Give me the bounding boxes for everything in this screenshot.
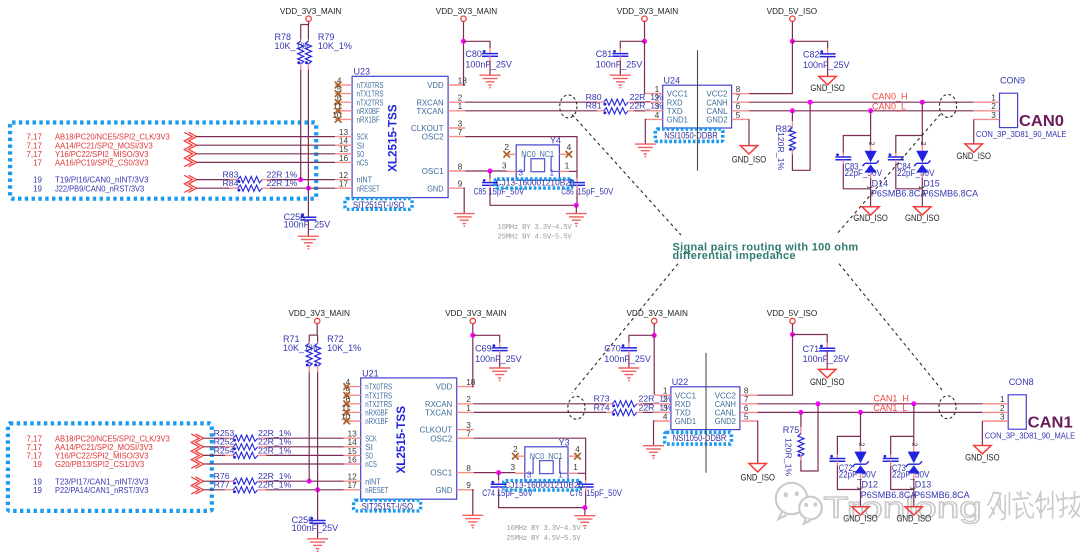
wire C83 down: [843, 164, 870, 189]
ground pin9 U23: [454, 213, 475, 215]
wire D14 to iso gnd: [870, 189, 872, 207]
wire branch to C81: [620, 41, 644, 48]
callout dash top-left: [572, 114, 681, 235]
pin 13 SCK U23: [335, 136, 352, 138]
svg-text:100nF_25V: 100nF_25V: [596, 60, 643, 70]
svg-text:22R_1%: 22R_1%: [258, 480, 292, 490]
pin 11 nRX0BF U21: [344, 411, 361, 413]
wire branch D14: [870, 111, 872, 136]
svg-text:nCS: nCS: [365, 459, 377, 469]
wire branch to C69: [473, 335, 500, 342]
wire R82 wrap to CAN0_H: [792, 102, 810, 170]
wire pullup1 to nINT: [300, 70, 302, 180]
svg-text:nRX1BF: nRX1BF: [365, 416, 388, 426]
pin 1 TXCAN U23: [448, 110, 465, 112]
pin 7 CANH U24: [732, 101, 750, 103]
svg-text:2: 2: [911, 442, 920, 446]
svg-text:R81: R81: [586, 101, 602, 111]
svg-text:nCS: nCS: [357, 158, 369, 168]
pin 15 SO U21: [344, 454, 361, 456]
CAN controller U23 XL2515-TSS: [352, 76, 448, 197]
ground GND1 U24: [635, 143, 656, 145]
pin 1 VCC1 U22: [654, 394, 671, 396]
pin 7 CANH U22: [740, 403, 758, 405]
svg-text:8: 8: [466, 463, 471, 473]
svg-text:VDD_3V3_MAIN: VDD_3V3_MAIN: [436, 7, 498, 16]
ground C80: [480, 74, 501, 76]
svg-text:2: 2: [857, 442, 866, 446]
no-connect pin 10 U21: [343, 418, 350, 425]
wire VCC1 feed U22: [653, 335, 656, 395]
off-page connectors control CAN1: [196, 477, 204, 494]
pin 18 VDD U23: [448, 84, 465, 86]
svg-text:4: 4: [567, 142, 572, 152]
svg-text:2: 2: [504, 142, 509, 152]
svg-text:16MHz BY 3.3V~4.5V: 16MHz BY 3.3V~4.5V: [507, 525, 582, 533]
svg-text:nRX1BF: nRX1BF: [357, 115, 380, 125]
no-connect pin 4 U21: [343, 383, 350, 390]
svg-text:VDD_3V3_MAIN: VDD_3V3_MAIN: [626, 309, 688, 318]
svg-text:1: 1: [565, 160, 570, 170]
routing ellipse right CAN1: [939, 396, 956, 419]
svg-text:D13: D13: [915, 479, 932, 489]
svg-text:Y3: Y3: [559, 438, 570, 448]
svg-text:GND_ISO: GND_ISO: [956, 151, 991, 161]
svg-text:25MHz BY 4.5V~5.5V: 25MHz BY 4.5V~5.5V: [498, 234, 573, 242]
capacitor C80 100nF_25V: [489, 48, 491, 54]
power VDD_3V3_MAIN C80: [461, 16, 466, 21]
svg-text:CJ13-160001210B20: CJ13-160001210B20: [504, 480, 583, 490]
junction VDD rail C80: [461, 39, 466, 44]
iso ground C82: [819, 76, 836, 84]
svg-text:U23: U23: [354, 67, 371, 77]
power VDD_3V3_MAIN C81: [642, 16, 647, 21]
pin 9 GND U21: [457, 489, 474, 491]
svg-text:NC0: NC0: [530, 451, 545, 461]
junction pullup/nRESET: [306, 186, 311, 191]
pin 5 GND2 U22: [740, 420, 758, 422]
svg-text:TXCAN: TXCAN: [416, 106, 443, 116]
svg-text:G20/PB13/SPI2_CS1/3V3: G20/PB13/SPI2_CS1/3V3: [55, 459, 145, 469]
svg-text:VDD: VDD: [436, 382, 452, 392]
svg-text:OSC1: OSC1: [422, 166, 444, 176]
junction pullup/nRESET: [315, 487, 320, 492]
pin 12 nINT U23: [335, 179, 352, 181]
resistor R75 120R_1%: [800, 412, 802, 427]
svg-text:J22/PB9/CAN0_nRST/3V3: J22/PB9/CAN0_nRST/3V3: [55, 183, 145, 193]
wire C80 to gnd: [489, 61, 491, 76]
pin 8 VCC2 U24: [732, 93, 750, 95]
pin 3 Y4: [507, 170, 517, 172]
svg-text:CAN0: CAN0: [1019, 113, 1064, 130]
wire branch D15: [921, 102, 923, 135]
wire branch to C82: [792, 41, 827, 48]
svg-text:16MHz BY 3.3V~4.5V: 16MHz BY 3.3V~4.5V: [498, 224, 573, 232]
svg-text:4: 4: [575, 444, 580, 454]
wire SPI2_CS wire: [204, 463, 344, 465]
wire pin3 CON9 to iso gnd: [973, 119, 975, 143]
svg-text:1: 1: [558, 470, 563, 480]
wire nINT wire: [197, 179, 230, 181]
pin 4 GND1 U24: [645, 118, 662, 120]
wire VCC1 feed U24: [644, 41, 647, 93]
svg-text:GND_ISO: GND_ISO: [732, 155, 767, 165]
resistor R79 10K_1%: [307, 25, 309, 40]
junction R82 top: [790, 108, 795, 113]
no-connect pin 4 U23: [335, 82, 342, 89]
svg-text:CAN1: CAN1: [1028, 415, 1073, 432]
svg-text:C74: C74: [482, 488, 495, 498]
resistor R84 22R 1%: [230, 187, 238, 189]
wire nINT wire: [204, 480, 226, 482]
svg-text:CJ13-160001210B20: CJ13-160001210B20: [496, 178, 575, 188]
junction pullup/nINT: [307, 479, 312, 484]
wire GND pin9 U23 to gnd: [463, 188, 466, 213]
capacitor C69 100nF_25V: [499, 342, 501, 348]
pin 2 RXCAN U23: [448, 101, 465, 103]
resistor R252 22R_1%: [225, 446, 233, 448]
svg-text:P6SMB6.8CA: P6SMB6.8CA: [914, 490, 970, 500]
junction R82 to CAN0_H: [808, 100, 813, 105]
svg-text:C71: C71: [803, 344, 820, 354]
wire branch D13: [913, 404, 915, 437]
off-page connectors SPI CAN0: [189, 132, 197, 166]
svg-text:U22: U22: [672, 377, 689, 387]
pin 2 RXD U24: [645, 101, 662, 103]
svg-text:1: 1: [549, 168, 554, 178]
no-connect pin 5 U21: [343, 392, 350, 399]
wire TXCAN wire: [474, 411, 607, 413]
svg-text:7: 7: [458, 127, 463, 137]
callout dash bottom-left: [572, 264, 678, 393]
wire CAN0_L line: [749, 110, 974, 112]
wire nRST wire b: [270, 187, 335, 189]
junction VCC1 rail C81: [642, 39, 647, 44]
wire branch D12: [860, 412, 862, 436]
svg-text:P22/PA14/CAN1_nRST/3V3: P22/PA14/CAN1_nRST/3V3: [55, 485, 149, 495]
wire CAN0_H line: [749, 101, 974, 103]
svg-text:8: 8: [458, 161, 463, 171]
wire nRESET to cap: [317, 490, 319, 521]
resistor R254 22R_1%: [225, 454, 233, 456]
off-page connectors control CAN0: [189, 175, 197, 192]
wire RXD wire: [634, 101, 645, 103]
part number box SIT2515T-I/SO U21: [354, 500, 421, 511]
svg-text:GND2: GND2: [706, 115, 727, 125]
svg-text:C80: C80: [465, 49, 482, 59]
svg-text:18: 18: [458, 75, 468, 85]
iso ground C71: [819, 369, 836, 377]
pin 1 TXCAN U21: [457, 411, 474, 413]
wire OSC2 wire: [474, 438, 586, 473]
capacitor C73 22pF_50V: [891, 436, 914, 454]
svg-text:VDD_5V_ISO: VDD_5V_ISO: [767, 309, 818, 318]
wire nINT wire b: [270, 179, 335, 181]
svg-text:3: 3: [527, 470, 532, 480]
wire pullup2 to nRESET: [317, 372, 319, 490]
pin 14 SI U21: [344, 446, 361, 448]
svg-text:2: 2: [919, 142, 928, 146]
junction VDD_5V_ISO rail: [790, 332, 795, 337]
svg-text:5: 5: [736, 110, 741, 120]
routing ellipse left CAN1: [568, 396, 585, 419]
svg-text:OSC2: OSC2: [430, 433, 452, 443]
svg-text:D15: D15: [923, 179, 940, 189]
svg-text:100nF_25V: 100nF_25V: [803, 354, 850, 364]
junction D13 branch: [911, 401, 916, 406]
routing ellipse right CAN0: [939, 94, 956, 117]
svg-text:10K_1%: 10K_1%: [327, 343, 361, 353]
pin 3 TXD U24: [645, 110, 662, 112]
svg-text:17: 17: [339, 179, 349, 189]
pin 1 VCC1 U24: [645, 93, 662, 95]
svg-text:GND_ISO: GND_ISO: [853, 213, 888, 223]
svg-text:17: 17: [33, 159, 42, 168]
wire C71 to iso gnd: [826, 351, 828, 370]
pin 6 CANL U24: [732, 110, 750, 112]
svg-text:SIT2515T-I/SO: SIT2515T-I/SO: [362, 502, 414, 512]
junction R75 to CAN1_H: [816, 401, 821, 406]
iso ground CON9: [965, 144, 982, 152]
svg-text:10K_1%: 10K_1%: [283, 343, 317, 353]
resistor R77 22R 1%: [225, 489, 233, 491]
svg-text:GND_ISO: GND_ISO: [810, 83, 845, 93]
power VDD_3V3_MAIN pullups CAN1: [315, 318, 320, 323]
capacitor C71 100nF_25V: [826, 343, 828, 349]
wire cap to gnd: [317, 523, 319, 539]
svg-text:15pF_50V: 15pF_50V: [577, 186, 613, 196]
svg-text:100nF_25V: 100nF_25V: [475, 354, 522, 364]
junction R75 top: [798, 410, 803, 415]
svg-text:100nF_25V: 100nF_25V: [604, 354, 651, 364]
pin 17 nRESET U23: [335, 187, 352, 189]
capacitor C256 100nF_25V: [310, 520, 326, 522]
resistor R72 10K_1%: [317, 335, 319, 342]
pin 1 Y3: [568, 472, 577, 474]
no-connect pin 2 Y4: [503, 151, 510, 158]
junction D15 branch: [920, 100, 925, 105]
isolation barrier line U22: [705, 353, 707, 473]
wire GND2 U24 to iso gnd: [748, 119, 750, 145]
junction crystal gnd rail: [582, 505, 587, 510]
svg-text:XL2515-TSS: XL2515-TSS: [394, 406, 408, 474]
svg-text:NC1: NC1: [540, 149, 555, 159]
capacitor C70 100nF_25V: [628, 342, 630, 348]
no-connect pin 2 Y3: [512, 453, 519, 460]
wire crystal pin1 wire: [577, 472, 585, 474]
wire SPI2_MOSI wire: [197, 144, 336, 146]
pin 10 nRX1BF U23: [335, 118, 352, 120]
no-connect pin 4 Y3: [574, 453, 581, 460]
ground C81: [610, 74, 631, 76]
callout dash bottom-right: [839, 264, 942, 390]
power VDD_5V_ISO CAN0: [790, 16, 795, 21]
no-connect pin 11 U23: [335, 108, 342, 115]
resistor R71 10K_1%: [308, 335, 310, 342]
wire SPI2_CLK wire: [197, 136, 336, 138]
wire C73 down: [891, 466, 914, 490]
capacitor C76 15pF_50V: [585, 473, 587, 480]
pin 2 CON9: [974, 110, 1000, 112]
resistor R81 22R_1%: [598, 110, 604, 112]
svg-text:25MHz BY 4.5V~5.5V: 25MHz BY 4.5V~5.5V: [507, 535, 582, 543]
svg-text:22R_1%: 22R_1%: [258, 445, 292, 455]
pin 1 CON8: [982, 403, 1008, 405]
pin 5 nTX1TRS U23: [335, 93, 352, 95]
wire D13 to iso gnd: [913, 490, 915, 507]
pin 4 Y3: [568, 455, 577, 457]
ground C256: [307, 538, 328, 540]
svg-text:19: 19: [33, 460, 42, 469]
svg-text:2: 2: [513, 444, 518, 454]
svg-text:GND1: GND1: [667, 115, 688, 125]
pin 7 OSC2 U21: [457, 437, 474, 439]
iso ground GND2 U24: [740, 146, 757, 154]
svg-text:GND: GND: [436, 485, 452, 495]
wire C81 to gnd: [619, 61, 621, 76]
svg-text:5: 5: [744, 411, 749, 421]
svg-text:nRESET: nRESET: [365, 485, 389, 495]
wire pullup2 to nRESET: [307, 70, 309, 188]
wire RXD wire: [643, 403, 654, 405]
no-connect pin 11 U21: [343, 409, 350, 416]
wire cap to gnd: [307, 220, 309, 236]
resistor R80 22R_1%: [598, 101, 604, 103]
capacitor C84 22pF_50V: [896, 136, 923, 154]
pin 12 nINT U21: [344, 480, 361, 482]
svg-text:120R_1%: 120R_1%: [776, 132, 786, 170]
tvs diode D13 P6SMB6.8CA: [913, 436, 915, 446]
svg-text:GND_ISO: GND_ISO: [740, 472, 775, 482]
svg-text:GND2: GND2: [715, 416, 736, 426]
iso ground D13: [905, 507, 922, 515]
wire C70 to gnd: [628, 355, 630, 368]
no-connect pin 5 U23: [335, 90, 342, 97]
wire C74 down: [499, 491, 585, 507]
power VDD_3V3_MAIN pullups CAN0: [306, 16, 311, 21]
svg-text:100nF_25V: 100nF_25V: [803, 60, 850, 70]
watermark wechat logo: [776, 483, 822, 524]
svg-text:GND_ISO: GND_ISO: [897, 514, 932, 524]
svg-text:C69: C69: [475, 344, 492, 354]
resistor R74 22R_1%: [606, 411, 612, 413]
wire GND1 U24 to gnd: [644, 119, 647, 143]
svg-text:CON8: CON8: [1009, 377, 1034, 387]
pin 1 CON9: [974, 101, 1000, 103]
wire TXD wire: [634, 110, 645, 112]
ground pin9 U21: [462, 514, 483, 516]
svg-text:10K_1%: 10K_1%: [318, 41, 352, 51]
CAN1 MCU signal box: [8, 423, 212, 511]
ground GND1 U22: [643, 445, 664, 447]
wire TXD wire: [643, 411, 654, 413]
tvs diode D14 P6SMB6.8CA: [870, 136, 872, 146]
svg-text:3: 3: [991, 110, 996, 120]
crystal Y4 CJ13-160001210B20: [516, 145, 559, 180]
capacitor C255 100nF_25V: [300, 216, 316, 218]
svg-text:VDD: VDD: [427, 80, 443, 90]
pin 2 Y3: [516, 455, 525, 457]
wire RXCAN wire: [465, 101, 597, 103]
wire R75 wrap to CAN1_H: [801, 404, 818, 471]
svg-text:GND_ISO: GND_ISO: [905, 213, 940, 223]
svg-text:10K_1%: 10K_1%: [275, 41, 309, 51]
wire pin3 CON8 to iso gnd: [981, 421, 983, 446]
wire C85 down: [490, 190, 576, 206]
junction D14 branch: [868, 108, 873, 113]
CAN isolator U24 NSI1050-DDBR: [663, 85, 732, 128]
pin 2 Y4: [508, 153, 517, 155]
callout dash top-right: [836, 114, 941, 235]
wire TXCAN wire: [465, 110, 597, 112]
wire nINT wire b: [266, 480, 344, 482]
wire C69 to gnd: [499, 355, 501, 368]
svg-text:OSC2: OSC2: [422, 132, 444, 142]
pin 6 nTX2TRS U23: [335, 101, 352, 103]
svg-text:D12: D12: [862, 479, 879, 489]
svg-text:3: 3: [502, 160, 507, 170]
svg-text:17: 17: [347, 480, 357, 490]
wire SPI2_CLK wire: [204, 437, 226, 439]
svg-text:22pF_50V: 22pF_50V: [897, 168, 935, 178]
svg-text:R77: R77: [214, 480, 230, 490]
wire GND pin9 U21 to gnd: [472, 490, 475, 516]
svg-text:R254: R254: [214, 445, 235, 455]
junction VCC1 rail C70: [652, 333, 657, 338]
wire CAN1_L line: [757, 411, 982, 413]
svg-text:GND_ISO: GND_ISO: [810, 377, 845, 387]
capacitor C83 22pF_50V: [843, 136, 870, 154]
no-connect pin 6 U21: [343, 401, 350, 408]
pin 4 Y4: [559, 153, 568, 155]
pin 2 CON8: [982, 411, 1008, 413]
no-connect pin 6 U23: [335, 99, 342, 106]
svg-text:GND_ISO: GND_ISO: [965, 453, 1000, 463]
capacitor C86 15pF_50V: [576, 171, 578, 178]
pin 9 GND U23: [448, 187, 465, 189]
svg-text:P6SMB6.8CA: P6SMB6.8CA: [923, 189, 979, 199]
svg-text:CAN1_L: CAN1_L: [873, 403, 907, 413]
ground C255: [298, 235, 319, 237]
wire pullup feed: [309, 334, 317, 336]
wire nRST wire: [204, 489, 226, 491]
wire GND2 U22 to iso gnd: [756, 421, 758, 464]
wire SPI2_MOSI wire: [204, 446, 226, 448]
svg-text:VDD_5V_ISO: VDD_5V_ISO: [767, 7, 818, 16]
svg-text:100nF_25V: 100nF_25V: [465, 60, 512, 70]
wire branch to C80: [464, 41, 491, 48]
wire crystal pin1 wire: [569, 170, 577, 172]
wire D12 to iso gnd: [860, 490, 862, 507]
svg-text:AA16/PC19/SPI2_CS0/3V3: AA16/PC19/SPI2_CS0/3V3: [55, 158, 149, 168]
junction pullup/nINT: [298, 177, 303, 182]
pin 6 nTX2TRS U21: [344, 403, 361, 405]
pin 16 nCS U21: [344, 463, 361, 465]
pin 3 TXD U22: [654, 411, 671, 413]
connector CON8 CON_3P_3D81_90_MALE: [1008, 395, 1026, 429]
svg-text:22pF_50V: 22pF_50V: [845, 168, 883, 178]
svg-text:GND1: GND1: [675, 416, 696, 426]
wire VDD net U23: [464, 41, 466, 85]
pin 4 GND1 U22: [654, 420, 671, 422]
svg-text:P6SMB6.8CA: P6SMB6.8CA: [861, 490, 917, 500]
pin 16 nCS U23: [335, 161, 352, 163]
part number box CJ13-160001210B20 Y4: [495, 179, 572, 188]
wire OSC2 wire: [465, 137, 577, 172]
svg-text:3: 3: [1000, 411, 1005, 421]
wire D15 to iso gnd: [921, 189, 923, 207]
pin 7 OSC2 U23: [448, 136, 465, 138]
